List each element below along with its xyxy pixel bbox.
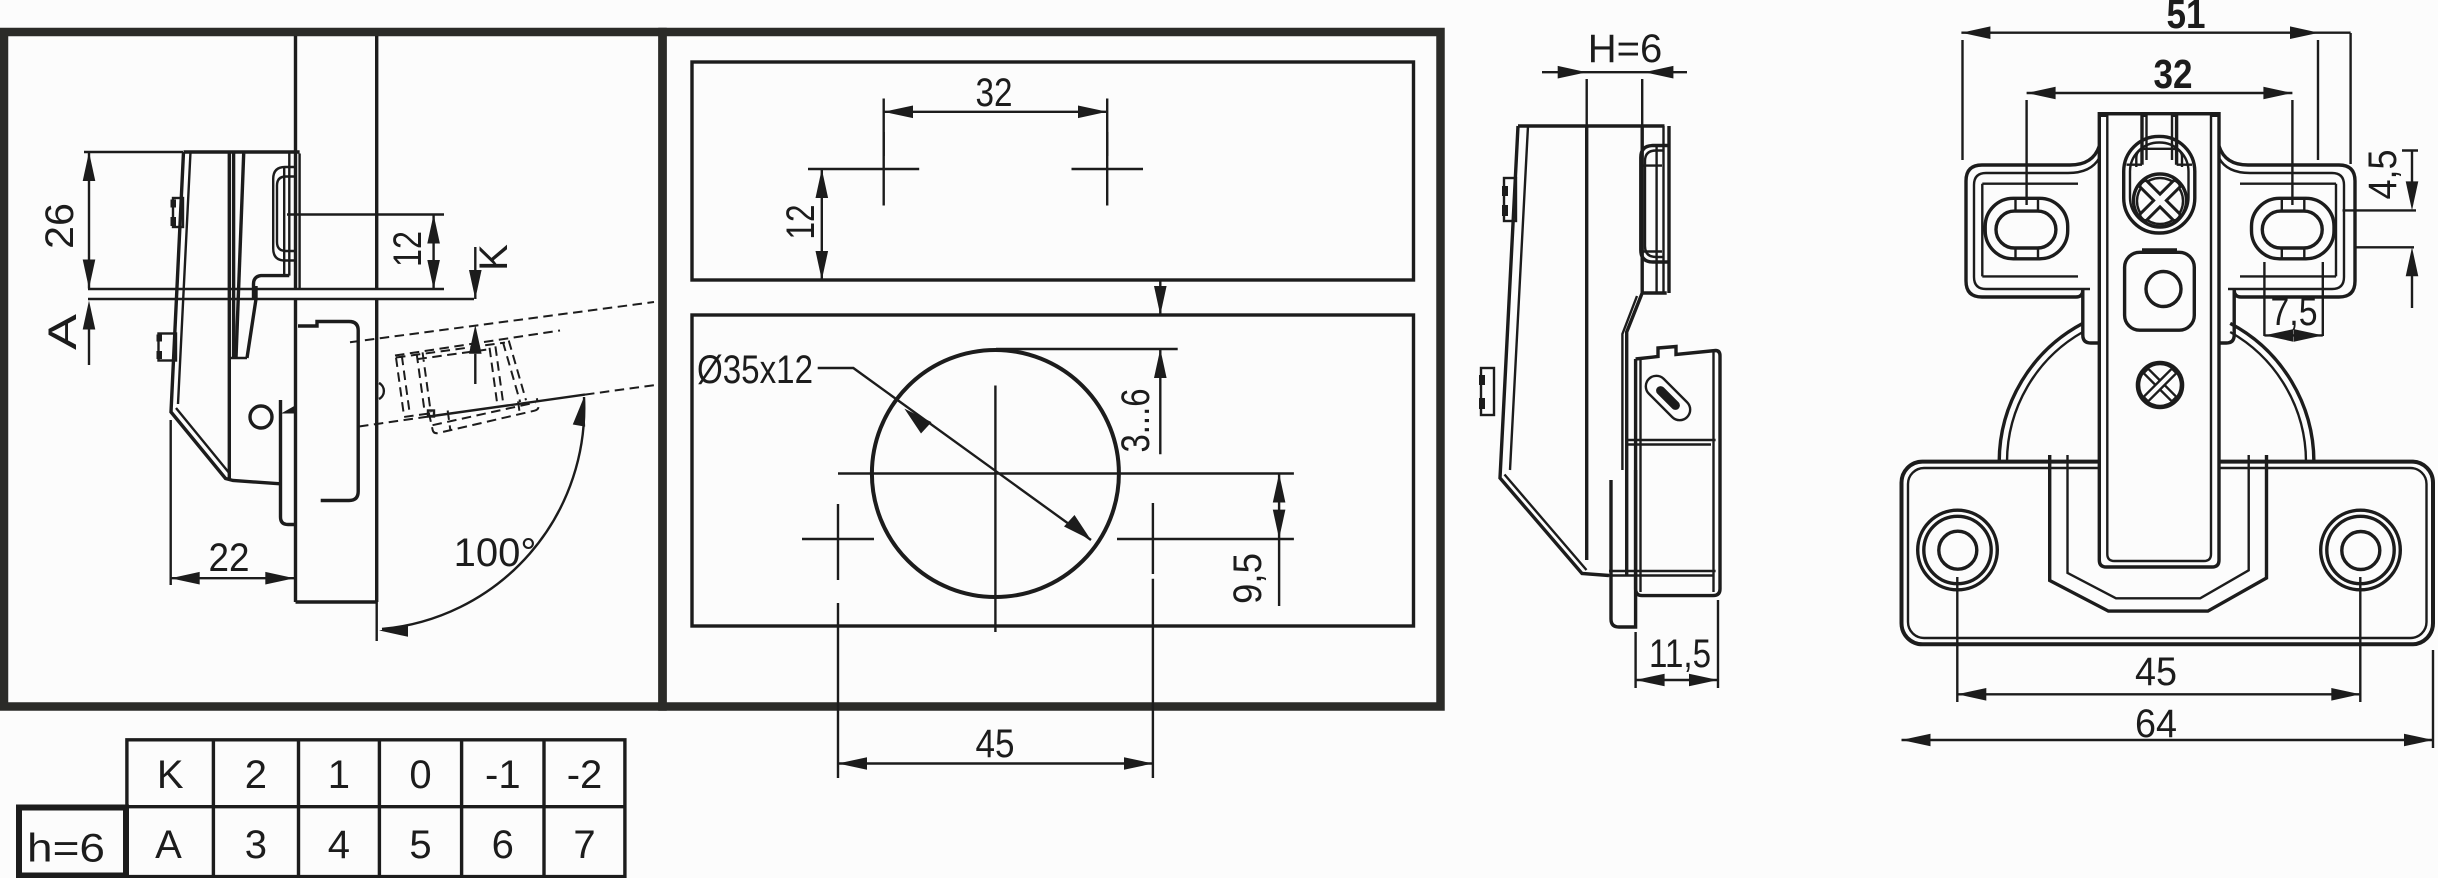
- svg-text:-1: -1: [485, 753, 521, 797]
- dimension 12: [821, 169, 823, 280]
- open cup assembly dashed: [396, 338, 540, 438]
- dome-wing step left: [2083, 297, 2099, 343]
- cup slot mid face: [283, 168, 285, 276]
- hinge back plate outer: [171, 152, 281, 484]
- cup slot outer (left panel): [273, 167, 295, 261]
- arm vertical line H ref right: [1640, 126, 1643, 293]
- drill cross right (32 pattern): [1072, 132, 1144, 206]
- dimension 3...6: [1159, 281, 1161, 454]
- hinge cup in door (closed): [298, 322, 358, 501]
- K/A correction table grid: [127, 740, 625, 877]
- dimension K: [474, 247, 476, 384]
- board face second line: [298, 154, 300, 289]
- hinge body top edge: [1518, 124, 1665, 127]
- cross recess X (outlined): [2124, 164, 2196, 236]
- square adjuster: [2125, 252, 2195, 330]
- svg-text:12: 12: [779, 205, 823, 240]
- mounting plate inner: [1908, 468, 2427, 638]
- drilling template upper rectangle: [692, 62, 1414, 280]
- dimension 26: [84, 152, 183, 289]
- left wing inner: [1974, 158, 2099, 289]
- circle vertical centerline: [994, 386, 996, 633]
- dimension A: [83, 301, 96, 330]
- drill cross lower-left (45 pattern): [802, 504, 874, 580]
- left oval slot inner: [1996, 211, 2056, 248]
- right wing inner: [2219, 158, 2344, 289]
- plate hole chamfered U outer: [2050, 455, 2267, 611]
- open door arm edge dashed: [395, 331, 560, 356]
- dimension 22: [171, 420, 295, 585]
- circle horizontal centerline: [838, 472, 1294, 474]
- right wing flat face: [2240, 184, 2336, 277]
- cross-head screw hole circle: [2134, 174, 2187, 227]
- svg-text:0: 0: [409, 753, 431, 797]
- screw hole left inner: [1939, 531, 1977, 569]
- arm lower front edge: [247, 286, 256, 358]
- svg-text:A: A: [41, 314, 85, 350]
- right oval slot outer: [2252, 198, 2335, 258]
- hinge top edge: [184, 150, 300, 153]
- adjuster circle: [2146, 272, 2181, 307]
- cup slot inner (left panel): [277, 177, 295, 252]
- screw hole left middle: [1924, 516, 1991, 583]
- svg-text:11,5: 11,5: [1649, 632, 1711, 676]
- hinge back plate outer edge: [1500, 126, 1609, 576]
- top edge caps: [2099, 112, 2219, 115]
- svg-text:51: 51: [2167, 0, 2206, 37]
- lower cross screw: [2138, 363, 2182, 407]
- dome-wing step right: [2218, 297, 2234, 343]
- cup slot front face: [288, 154, 290, 276]
- hole circle D35: [872, 350, 1119, 597]
- svg-text:7,5: 7,5: [2271, 290, 2318, 334]
- drill cross lower-right (45 pattern): [1117, 503, 1294, 574]
- cup dome inner arc left: [2007, 332, 2083, 462]
- circle top extension line: [996, 348, 1178, 350]
- arm vertical edges: [229, 154, 233, 480]
- left wing outer: [1966, 146, 2099, 297]
- cup dome inner arc right: [2230, 332, 2306, 462]
- cup dome outer arc left: [1999, 323, 2083, 461]
- svg-text:Ø35x12: Ø35x12: [697, 348, 813, 392]
- cup slot inner (view3): [1645, 151, 1663, 258]
- slot centerline: [287, 213, 444, 215]
- pivot circle: [250, 406, 272, 428]
- svg-text:45: 45: [976, 722, 1015, 766]
- svg-text:26: 26: [38, 203, 82, 249]
- hinge back plate inner edge: [1505, 126, 1587, 570]
- cup slot front face line: [1655, 146, 1657, 292]
- screw hole right middle: [2327, 516, 2394, 583]
- lower tab: [159, 334, 177, 361]
- left panel frame: [4, 32, 663, 707]
- mounting plate outer: [1902, 462, 2434, 645]
- slot shelf: [254, 276, 290, 299]
- screw housing inner arch: [2136, 149, 2182, 167]
- open door bottom edge dashed start: [359, 417, 429, 427]
- cup slot tangent ticks: [1641, 166, 1662, 252]
- svg-text:32: 32: [2154, 51, 2193, 97]
- svg-text:K: K: [157, 753, 184, 797]
- cup wedge flap: [281, 405, 296, 414]
- svg-text:2: 2: [245, 753, 267, 797]
- upper tab (view3): [1504, 178, 1516, 221]
- open door bottom edge solid: [429, 395, 585, 417]
- open door bottom edge dashed continuation: [585, 385, 654, 394]
- svg-text:32: 32: [976, 71, 1013, 115]
- mounting strip (view3): [1611, 470, 1636, 627]
- extension line left cross to 45 dim: [837, 603, 839, 778]
- dimension 12 (left panel): [432, 215, 434, 290]
- bracket inner vertical: [1641, 352, 1714, 592]
- door edge extension to arc: [376, 602, 378, 641]
- dimension 9,5: [1278, 474, 1280, 607]
- upper tab: [173, 198, 183, 227]
- cup dome outer arc right: [2230, 323, 2314, 461]
- svg-text:5: 5: [409, 823, 431, 867]
- arm top U-slot walls: [2142, 114, 2177, 165]
- svg-text:4,5: 4,5: [2361, 150, 2405, 200]
- door edge line: [88, 298, 474, 300]
- svg-text:22: 22: [209, 536, 250, 580]
- top cap dark nubs: [2101, 112, 2219, 117]
- screw housing outer oval: [2124, 136, 2195, 233]
- cup slot outer (view3): [1641, 146, 1669, 263]
- step below cup slot: [1627, 293, 1667, 575]
- capsule screw slot (view3): [1641, 371, 1694, 424]
- svg-text:-2: -2: [567, 753, 603, 797]
- svg-text:7: 7: [573, 823, 595, 867]
- dimension 32: [884, 99, 1107, 157]
- cabinet side board: [296, 36, 377, 289]
- mounting strip (closed): [281, 400, 296, 525]
- svg-text:3...6: 3...6: [1114, 389, 1158, 453]
- arm inner edges: [2107, 114, 2211, 561]
- closed door board: [296, 299, 377, 602]
- drill cross left (32 pattern): [808, 132, 919, 206]
- svg-text:K: K: [472, 244, 516, 271]
- svg-text:6: 6: [492, 823, 514, 867]
- opening arc 100 deg: [382, 397, 584, 629]
- extension line right cross to 45 dim: [1152, 579, 1154, 778]
- svg-text:4: 4: [328, 823, 350, 867]
- screw head circle: [2137, 178, 2183, 224]
- screw hole left outer: [1918, 510, 1998, 590]
- svg-text:1: 1: [328, 753, 350, 797]
- middle panel frame: [663, 32, 1441, 707]
- svg-text:3: 3: [245, 823, 267, 867]
- screw hole right inner: [2342, 532, 2380, 570]
- drilling template lower rectangle: [692, 315, 1414, 626]
- screw hole right outer: [2321, 510, 2401, 590]
- junction square: [428, 411, 434, 417]
- right wing outer: [2219, 146, 2355, 297]
- screw housing middle oval: [2130, 143, 2189, 227]
- svg-text:h=6: h=6: [27, 827, 105, 871]
- left oval slot outer: [1985, 198, 2068, 258]
- lower tab (view3): [1481, 368, 1494, 415]
- right oval countersink ticks: [2282, 198, 2305, 258]
- inner step line: [1622, 296, 1637, 470]
- arm fork connector: [229, 357, 247, 359]
- svg-text:H=6: H=6: [1588, 27, 1663, 71]
- svg-text:100°: 100°: [454, 531, 537, 575]
- left wing flat face: [1982, 184, 2078, 277]
- dimension 45 (below middle panel): [838, 762, 1153, 764]
- bracket inner step lines: [1609, 440, 1716, 576]
- svg-text:12: 12: [386, 231, 430, 267]
- body right edge: [1667, 126, 1670, 293]
- open door face dashed top: [350, 302, 654, 342]
- housing shoulder ticks: [2127, 163, 2193, 165]
- overlay line (edge of cabinet): [88, 288, 444, 290]
- svg-text:9,5: 9,5: [1226, 553, 1270, 604]
- hinge back plate inner: [176, 152, 230, 474]
- pivot dashed arc: [379, 383, 384, 399]
- plate hole chamfered U inner: [2068, 455, 2249, 598]
- central arm body: [2099, 114, 2219, 567]
- right oval slot inner: [2262, 211, 2322, 248]
- arm vertical line H ref left: [1585, 126, 1588, 560]
- svg-text:A: A: [155, 823, 182, 867]
- arm slanted front edge: [236, 154, 244, 359]
- svg-text:45: 45: [2135, 650, 2177, 694]
- h=6 cell (thick box): [19, 808, 126, 876]
- door bracket outline (view3): [1636, 347, 1720, 596]
- left oval countersink ticks: [2016, 198, 2039, 258]
